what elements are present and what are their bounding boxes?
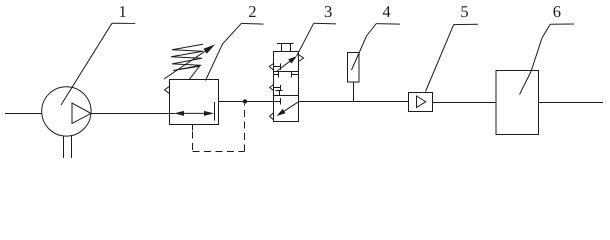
valve 3: top cap right leg xyxy=(290,44,292,52)
label 3 leader diagonal xyxy=(297,23,314,56)
valve 2: body square xyxy=(170,80,219,125)
pump 1: circle body xyxy=(42,87,91,136)
label 6 leader underline xyxy=(550,23,574,25)
valve 3 top box: diagonal flow arrow head xyxy=(288,56,297,64)
valve 2: internal double-headed flow arrow shaft xyxy=(180,112,208,114)
valve 2: flow arrow right head xyxy=(204,111,214,116)
valve 2: spring adjustment arrow head xyxy=(203,45,215,54)
valve 3: body rectangle xyxy=(274,52,299,122)
valve 3 middle box: left blocked port line xyxy=(274,74,279,76)
valve 2: pilot dashed line down xyxy=(192,132,194,152)
wire: component 6 to right edge xyxy=(539,102,604,104)
valve 2: flow arrow left head xyxy=(174,111,184,116)
pump 1: flow direction triangle xyxy=(72,103,91,123)
valve 2: pilot stub below body xyxy=(192,125,194,131)
label 2 text xyxy=(249,6,256,17)
valve 2: adjusting spring zigzag xyxy=(171,44,203,80)
label 5 text xyxy=(461,6,468,17)
component 6: rectangle body xyxy=(496,71,539,135)
label 1 leader diagonal xyxy=(61,23,112,105)
valve 3 bottom box: left edge open triangle xyxy=(270,113,274,120)
valve 3 top box: left blocked port tick xyxy=(280,64,282,71)
label 3 text xyxy=(325,6,332,17)
valve 2: pilot dashed line across xyxy=(193,151,245,153)
valve 3 top box: diagonal flow arrow shaft xyxy=(277,61,290,71)
valve 3 middle box: lower left blocked port tick xyxy=(280,85,282,90)
valve 3: top cap bar xyxy=(277,43,294,45)
wire: junction node to valve 3 xyxy=(245,101,280,103)
valve 3 middle box: bottom stub bar xyxy=(276,90,283,92)
valve 3 middle box: left blocked port tick xyxy=(278,72,280,78)
amplifier 5: body rectangle xyxy=(409,93,433,112)
valve 3 bottom box: left port tick on main line xyxy=(280,98,282,105)
label 4 leader underline xyxy=(376,23,400,26)
valve 3 middle box: right blocked port line xyxy=(292,74,299,76)
wire: valve 2 outlet to junction node xyxy=(219,101,246,103)
label 6 text xyxy=(553,6,560,17)
wire: valve 3 to amplifier 5 xyxy=(299,101,409,103)
label 4 leader diagonal xyxy=(352,24,377,71)
node: junction dot on main line xyxy=(243,99,247,103)
component 4: sensor rectangle xyxy=(348,53,360,83)
wire: pump 1 outlet to valve 2 xyxy=(91,113,175,115)
pump 1: suction double line xyxy=(63,136,65,158)
label 2 leader diagonal xyxy=(206,23,242,80)
valve 2: left port open triangle xyxy=(165,86,170,94)
label 2 leader underline xyxy=(241,22,263,25)
valve 2: internal passage line near right edge xyxy=(214,102,216,121)
label 5 leader underline xyxy=(454,23,478,25)
valve 3 bottom box: diagonal flow arrow head xyxy=(277,109,286,116)
label 5 leader diagonal xyxy=(426,25,454,92)
valve 2: pilot dashed line up to junction node xyxy=(244,104,246,152)
valve 2: spring adjustment arrow shaft xyxy=(164,51,206,79)
label 3 leader underline xyxy=(314,22,336,25)
valve 3 middle box: lower left open triangle xyxy=(270,85,274,91)
valve 3 top box: left open triangle xyxy=(269,64,273,71)
label 1 leader underline xyxy=(112,22,135,24)
valve 3: divider between top and middle boxes xyxy=(274,71,299,73)
valve 3 top box: right edge open triangle xyxy=(299,55,304,62)
valve 3: divider between middle and bottom boxes xyxy=(274,95,299,97)
valve 3 bottom box: diagonal flow arrow shaft xyxy=(284,102,299,111)
component 4: stub to main line xyxy=(353,82,355,102)
valve 3 middle box: right blocked port tick xyxy=(291,72,293,78)
amplifier 5: open triangle xyxy=(417,96,426,108)
wire: amplifier 5 to component 6 xyxy=(433,102,497,104)
valve 3 middle box: bottom stub xyxy=(279,91,281,96)
valve 3 middle box: lower left blocked port line xyxy=(274,87,281,89)
label 1 text xyxy=(120,6,126,17)
valve 3: top cap left leg xyxy=(281,44,283,52)
label 4 text xyxy=(383,6,391,17)
label 6 leader diagonal xyxy=(520,24,551,94)
valve 3 top box: left blocked port line xyxy=(274,66,281,68)
wire: inlet line at left edge to pump 1 xyxy=(5,113,42,115)
